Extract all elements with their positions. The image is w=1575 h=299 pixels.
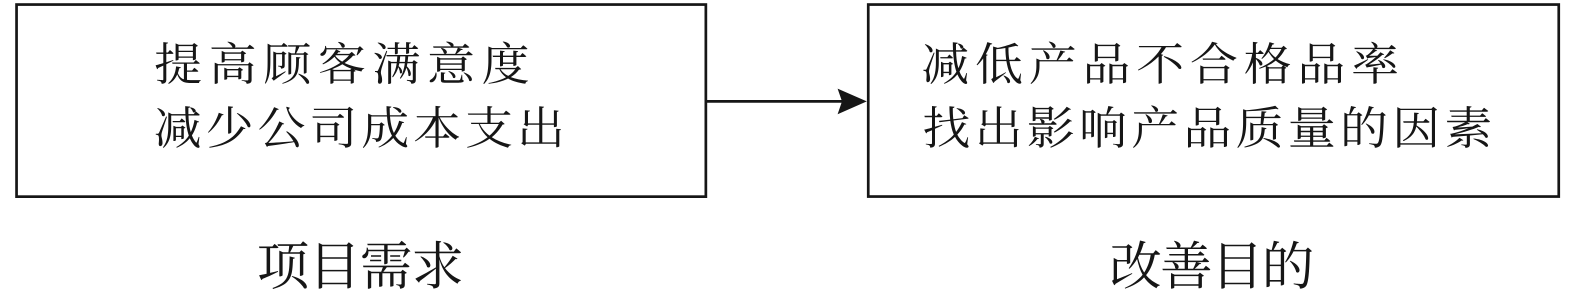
arrow wire from left box to right box bbox=[707, 100, 844, 103]
text: 减少公司成本支出 (box1 line2) bbox=[156, 106, 561, 148]
text: 找出影响产品质量的因素 (box2 line2) bbox=[924, 105, 1490, 147]
left box: project needs bbox=[17, 5, 706, 197]
text: 改善目的 (caption right) bbox=[1112, 241, 1312, 289]
arrowhead bbox=[838, 89, 867, 115]
text: 项目需求 (caption left) bbox=[259, 241, 461, 289]
text: 提高顾客满意度 (box1 line1) bbox=[156, 42, 528, 85]
text: 减低产品不合格品率 (box2 line1) bbox=[923, 42, 1397, 85]
right box: improvement goals bbox=[868, 5, 1559, 197]
